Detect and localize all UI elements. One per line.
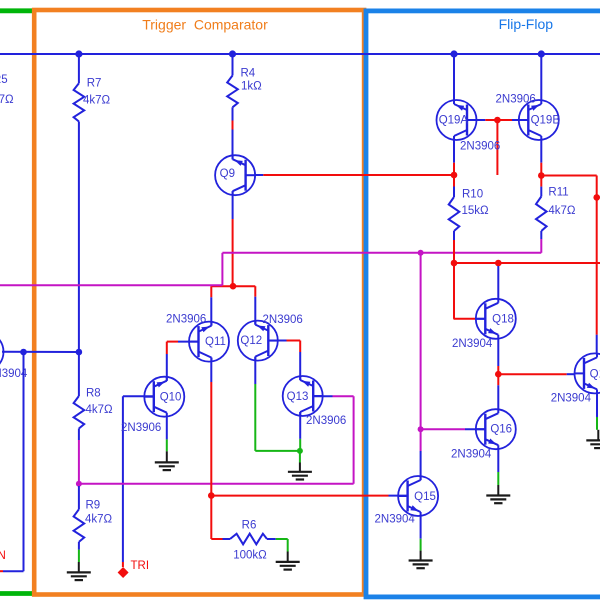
wire R9 to ground: [78, 542, 80, 562]
node B (R8/R9/threshold junction): [76, 481, 82, 487]
node A (R7/R8 junction): [76, 349, 83, 356]
ground R6: [276, 552, 300, 570]
wire rail to R4: [232, 54, 234, 76]
wire Q19A collector: [453, 140, 455, 175]
svg-text:100kΩ: 100kΩ: [233, 550, 267, 562]
wire R6 to ground: [287, 539, 289, 552]
wire R7 to node A: [78, 122, 80, 353]
label Q11 2N3906: [166, 314, 206, 326]
svg-text:2N3906: 2N3906: [496, 94, 536, 106]
node O (Q18 emitter junction): [495, 371, 502, 378]
ground Q15: [409, 551, 433, 569]
node H (Q15 base junction): [208, 492, 215, 499]
wire Q18 collector: [497, 263, 499, 299]
transistor Q17 (partial at right edge): [575, 353, 600, 393]
ground Q12/Q13: [288, 463, 312, 480]
wire R4 to Q9 emitter: [232, 107, 234, 159]
node rail-R4: [229, 50, 236, 57]
transistor Q13: [283, 376, 323, 416]
svg-text:Q18: Q18: [492, 314, 514, 326]
wire node O to Q17 base: [498, 373, 574, 375]
wire Q18 emitter: [497, 339, 499, 375]
wire Q16 emitter: [497, 449, 499, 485]
wire node C down: [23, 352, 25, 571]
wire node K right: [541, 175, 596, 177]
svg-text:R4: R4: [241, 67, 256, 79]
wire Q19B collector: [540, 140, 542, 176]
node I (base coupling): [494, 117, 501, 124]
svg-text:4k7Ω: 4k7Ω: [86, 404, 114, 416]
node L (R10/Q18 base junction): [451, 260, 458, 267]
wire Q13 base down: [353, 396, 355, 484]
blue box (Flip-Flop border): [366, 11, 600, 597]
svg-text:15kΩ: 15kΩ: [462, 205, 490, 217]
wire node K to R11: [540, 176, 542, 197]
wire node L to Q18 base: [454, 263, 486, 319]
transistor Q15: [398, 476, 438, 516]
svg-text:2N3906: 2N3906: [121, 422, 161, 434]
resistor R8: [74, 388, 113, 429]
resistor R9: [74, 500, 113, 542]
wire Q12 collector: [254, 357, 256, 451]
wire node I down: [496, 120, 498, 175]
wire R6 right: [267, 538, 288, 540]
node rail-R7: [75, 50, 82, 57]
transistor Q9: [215, 155, 255, 195]
wire R11 bottom: [540, 231, 542, 253]
svg-text:R6: R6: [242, 520, 257, 532]
svg-text:1kΩ: 1kΩ: [241, 81, 262, 93]
wire Q13 base to node B: [79, 483, 354, 485]
wire Q17 collector riser: [596, 176, 598, 354]
wire node J to R10: [453, 175, 455, 197]
svg-text:R5: R5: [0, 74, 8, 86]
svg-text:4k7Ω: 4k7Ω: [548, 205, 576, 217]
label Q19B 2N3906: [496, 94, 536, 106]
transistor Q18: [476, 299, 516, 339]
svg-text:2N3904: 2N3904: [375, 514, 416, 526]
wire stub right: [597, 196, 600, 198]
wire R8 bottom magenta: [78, 440, 80, 486]
wire Q13 base: [313, 395, 353, 397]
resistor R10: [449, 189, 489, 232]
svg-text:Q10: Q10: [160, 392, 182, 404]
label Q13 2N3906: [306, 415, 346, 427]
wire tail to Q12 emitter: [254, 286, 256, 325]
svg-text:Q19B: Q19B: [531, 114, 561, 126]
transistor Q16: [476, 409, 516, 449]
svg-text:2N3904: 2N3904: [452, 338, 493, 350]
transistor Q11: [189, 322, 229, 362]
label Q19A 2N3906: [460, 141, 500, 153]
resistor R6: [230, 520, 267, 562]
wire rail to R7: [78, 54, 80, 83]
wire node C bottom left: [0, 570, 24, 572]
wire R8 bottom blue: [78, 429, 80, 441]
svg-text:N: N: [0, 550, 6, 562]
wire node H down to R6: [211, 496, 230, 539]
wire magenta net top segment: [222, 252, 541, 254]
ground Q17: [586, 430, 600, 448]
wire Q11 base: [167, 341, 199, 343]
wire Q16 base: [421, 428, 486, 430]
wire magenta net riser: [221, 253, 223, 285]
node K (R11 top): [538, 172, 545, 179]
wire Q19A emitter to rail: [453, 54, 455, 100]
wire node B to R9: [78, 486, 80, 509]
svg-text:Q15: Q15: [414, 491, 436, 503]
wire Q14 base to node A: [2, 351, 79, 353]
wire Q10 base: [123, 395, 154, 397]
wire magenta net left segment: [0, 284, 222, 286]
wire Q9 collector: [232, 191, 234, 286]
resistor R11: [536, 186, 576, 231]
ground R9: [67, 562, 91, 580]
node G (ground junction): [297, 448, 303, 454]
label Q10 2N3906: [121, 422, 161, 434]
svg-text:Q12: Q12: [240, 335, 262, 347]
wire magenta net down to Q16 base: [420, 253, 422, 429]
svg-text:2N3906: 2N3906: [166, 314, 206, 326]
ground Q10: [155, 451, 179, 470]
label Q12 2N3906: [263, 314, 303, 326]
orange box (Trigger Comparator border): [34, 10, 364, 595]
wire node A to R8: [78, 352, 80, 396]
svg-text:Q9: Q9: [220, 168, 235, 180]
svg-text:R8: R8: [86, 388, 101, 400]
wire Q19A base: [467, 119, 497, 121]
svg-text:Q16: Q16: [490, 424, 512, 436]
node N (stub): [593, 194, 600, 201]
node M (Q18 collector junction): [495, 260, 502, 267]
svg-text:TRI: TRI: [131, 560, 150, 572]
ground Q16: [486, 485, 510, 503]
title Flip-Flop: [499, 16, 554, 32]
wire Q19B base: [497, 119, 528, 121]
svg-text:2N3906: 2N3906: [263, 314, 303, 326]
wire Q19B emitter to rail: [540, 54, 542, 100]
green box (left sub-circuit border): [0, 11, 33, 594]
label Q17 2N3904: [551, 393, 592, 405]
node E (magenta junction): [418, 250, 424, 256]
wire node H to Q15 base: [211, 495, 407, 497]
wire node F to Q15 collector: [420, 429, 422, 480]
svg-text:4k7Ω: 4k7Ω: [85, 514, 113, 526]
resistor R5 labels (partial at left edge): [0, 74, 14, 106]
wire Q12 collector to ground node: [255, 450, 300, 452]
title Trigger Comparator: [142, 17, 268, 33]
svg-text:Q17: Q17: [590, 368, 600, 380]
svg-text:R9: R9: [86, 500, 101, 512]
node D (tail junction): [230, 283, 237, 290]
wire tail to Q11 emitter: [210, 286, 212, 326]
svg-text:Trigger Comparator: Trigger Comparator: [142, 17, 268, 33]
svg-text:2N3906: 2N3906: [306, 415, 346, 427]
svg-text:R11: R11: [548, 186, 568, 198]
wire Q12 base: [268, 340, 300, 342]
svg-text:R7: R7: [87, 78, 102, 90]
node J (R10 top): [451, 172, 458, 179]
resistor R7: [74, 78, 111, 122]
label Q16 2N3904: [451, 449, 492, 461]
svg-text:2N3904: 2N3904: [451, 449, 492, 461]
net label N (partial): [0, 550, 6, 562]
svg-text:Q19A: Q19A: [439, 114, 469, 126]
label Q18 2N3904: [452, 338, 493, 350]
wire R10 bottom: [453, 231, 455, 263]
label Q15 2N3904: [375, 514, 416, 526]
svg-text:4k7Ω: 4k7Ω: [0, 94, 14, 106]
transistor Q14 (partial at left edge): [0, 332, 28, 380]
svg-text:R10: R10: [462, 189, 483, 201]
wire Q12 base to Q13 emitter: [299, 341, 301, 381]
wire Q11 base to Q10 emitter: [166, 342, 168, 381]
resistor R4: [227, 67, 262, 107]
svg-text:2N3906: 2N3906: [460, 141, 500, 153]
node C: [20, 349, 27, 356]
wire Q9 base red to flip-flop: [263, 174, 454, 176]
node rail-Q19A: [450, 50, 457, 57]
transistor Q12: [238, 321, 278, 361]
svg-text:4k7Ω: 4k7Ω: [83, 94, 111, 106]
transistor Q19A: [437, 100, 477, 140]
svg-text:Q11: Q11: [205, 336, 226, 348]
node F (Q16 base junction): [418, 426, 424, 432]
svg-text:Flip-Flop: Flip-Flop: [499, 16, 554, 32]
svg-text:2N3904: 2N3904: [551, 393, 592, 405]
node rail-Q19B: [538, 50, 545, 57]
svg-text:Q13: Q13: [287, 391, 309, 403]
transistor Q10: [144, 377, 184, 417]
wire V+ rail: [0, 53, 600, 55]
wire node O to Q16 collector: [497, 374, 499, 409]
wire Q9 base blue: [255, 174, 263, 176]
wire set line: [454, 262, 600, 264]
terminal TRI: [118, 560, 149, 578]
wire Q15 emitter: [420, 516, 422, 551]
wire Q17 emitter: [596, 393, 598, 430]
wire Q11 collector: [210, 358, 212, 496]
wire node G down: [299, 451, 301, 463]
wire Q10 collector: [166, 417, 168, 452]
transistor Q19B: [519, 100, 561, 140]
wire tail horizontal: [211, 285, 255, 287]
wire Q10 base down to TRI: [122, 396, 124, 567]
wire Q13 collector: [299, 412, 301, 451]
